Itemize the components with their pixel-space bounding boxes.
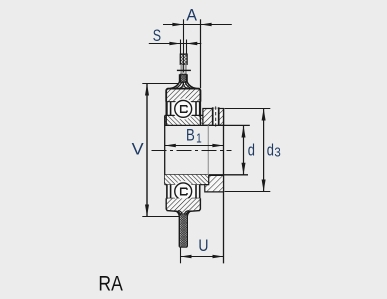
dimension S (149, 40, 202, 54)
svg-text:A: A (186, 6, 197, 25)
shaft centerline (152, 150, 232, 152)
housing right edge (199, 90, 201, 126)
flange plate top section (203, 106, 224, 128)
bolt hole centerline (215, 106, 217, 128)
svg-text:d: d (267, 140, 274, 159)
svg-text:RA: RA (98, 272, 123, 296)
svg-text:1: 1 (196, 131, 202, 145)
svg-text:3: 3 (274, 145, 280, 160)
ball top center mark (181, 106, 187, 113)
bottom outer band (166, 198, 201, 209)
housing top boss (flare) (166, 74, 200, 93)
dimension B1 (165, 144, 224, 148)
svg-text:B: B (186, 126, 195, 145)
housing back edge (grey) (207, 125, 209, 174)
ball bottom (175, 183, 192, 200)
bore bottom line / d extension (165, 174, 248, 176)
nipple thread in boss (180, 74, 186, 82)
grease nipple head (180, 54, 187, 64)
nipple centerline (182, 54, 184, 73)
bore top line / d extension (165, 124, 250, 126)
housing top outer band (166, 89, 201, 102)
nipple hex collar (177, 69, 191, 71)
top seal zone (167, 102, 200, 115)
bottom ball raceway gap (173, 181, 194, 202)
housing left edge (165, 90, 167, 126)
flange plate bottom section (205, 175, 224, 192)
mounting face line (223, 109, 225, 264)
dimension U (181, 247, 224, 263)
bottom seal lines (167, 185, 200, 199)
grease nipple neck (182, 64, 186, 75)
dimension d (242, 125, 246, 175)
inner ring left face (164, 115, 166, 184)
bottom boss flare strokes (175, 211, 191, 216)
bottom inner ring band (165, 175, 209, 185)
housing bottom outline with stem boss (166, 198, 200, 247)
dimension V (142, 84, 179, 217)
ball top (175, 100, 192, 117)
top seal lines (167, 102, 200, 116)
top ball raceway gap (173, 98, 194, 119)
bottom seal zone (167, 185, 200, 199)
dimension d3 (225, 109, 271, 192)
top inner ring band (165, 115, 205, 125)
svg-text:d: d (248, 140, 255, 159)
ball bottom center mark (181, 188, 187, 195)
svg-text:U: U (198, 236, 208, 255)
svg-text:V: V (132, 139, 145, 158)
svg-text:S: S (153, 26, 161, 45)
dimension A (163, 19, 232, 88)
stem thread hatch (180, 213, 186, 246)
